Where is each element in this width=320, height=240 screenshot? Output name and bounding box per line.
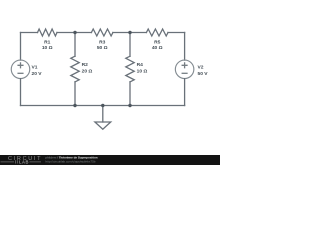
svg-text:R1: R1: [44, 39, 51, 45]
wire left branch lower: [20, 79, 22, 106]
wire R4 branch lower: [129, 82, 131, 106]
svg-text:V2: V2: [198, 65, 204, 71]
wire top rail left segment: [21, 32, 38, 34]
wire left branch upper: [20, 33, 22, 61]
wire R2 branch lower: [74, 82, 76, 106]
svg-text:R3: R3: [99, 39, 106, 45]
CircuitLab logo underline right: [30, 161, 42, 163]
svg-text:V1: V1: [32, 65, 38, 71]
svg-text:R4: R4: [137, 62, 144, 68]
voltage source V1: [11, 60, 30, 79]
resistor R2: [71, 56, 79, 82]
node bottom R2 junction dot: [73, 104, 76, 107]
V2 minus sign: [182, 72, 187, 74]
ground stem: [102, 106, 104, 123]
CircuitLab logo underline left: [1, 161, 15, 163]
ground: [95, 122, 111, 129]
resistor R1: [38, 29, 58, 36]
svg-text:R5: R5: [154, 39, 161, 45]
node B junction dot: [128, 31, 131, 34]
wire R4 branch upper: [129, 33, 131, 57]
V1 plus sign: [18, 63, 23, 68]
node A junction dot: [73, 31, 76, 34]
voltage source V2: [175, 60, 194, 79]
svg-text:LAB: LAB: [19, 160, 29, 165]
svg-text:10 Ω: 10 Ω: [137, 69, 148, 75]
svg-text:20 Ω: 20 Ω: [82, 69, 93, 75]
footer bar: [0, 155, 220, 165]
V2 plus sign: [182, 63, 187, 68]
svg-text:50 V: 50 V: [198, 71, 209, 77]
wire between R1 and node A: [57, 32, 91, 34]
wire bottom rail: [21, 105, 185, 107]
svg-text:R2: R2: [82, 62, 89, 68]
svg-text:10 Ω: 10 Ω: [42, 45, 53, 51]
wire R2 branch upper: [74, 33, 76, 57]
wire top rail right segment: [168, 32, 185, 34]
CircuitLab logo capacitor glyph: [16, 160, 18, 163]
svg-text:50 Ω: 50 Ω: [97, 45, 108, 51]
svg-text:40 Ω: 40 Ω: [152, 45, 163, 51]
V1 minus sign: [18, 72, 23, 74]
node bottom ground junction dot: [101, 104, 104, 107]
svg-text:20 V: 20 V: [32, 71, 43, 77]
wire right branch upper: [184, 33, 186, 61]
wire right branch lower: [184, 79, 186, 106]
svg-text:http://circuitlab.com/c/apyhty: http://circuitlab.com/c/apyhtybhkx75b: [46, 159, 96, 163]
resistor R3: [91, 29, 113, 36]
resistor R4: [126, 56, 134, 82]
node bottom R4 junction dot: [128, 104, 131, 107]
wire between R3 and node B: [113, 32, 146, 34]
resistor R5: [146, 29, 168, 36]
